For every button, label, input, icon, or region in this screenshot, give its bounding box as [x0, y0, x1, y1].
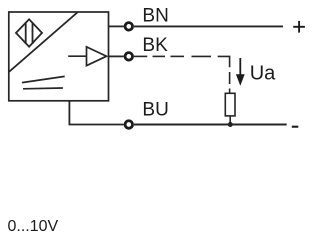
svg-text:BK: BK — [142, 35, 168, 56]
amplifier triangle U1 — [68, 47, 106, 66]
terminal BN — [125, 23, 133, 31]
arrow Ua (voltage arrow pointing down) — [236, 58, 245, 86]
wire BK solid stub — [134, 55, 147, 57]
dashed wire BK corner piece — [218, 56, 230, 67]
adjustment symbol (two lines) — [22, 76, 65, 82]
terminal BU — [125, 121, 133, 129]
terminal BK — [125, 53, 133, 61]
minus terminal — [292, 126, 299, 128]
junction dot on BU wire — [228, 122, 233, 127]
inductive sensor symbol (diamond) — [16, 19, 42, 46]
diagonal divider line inside sensor box — [9, 12, 77, 71]
sensor box outline — [9, 12, 109, 101]
wire from box bottom down — [68, 101, 70, 125]
wire BN to plus — [134, 25, 283, 27]
svg-text:Ua: Ua — [250, 63, 276, 85]
dashed wire BK vertical dashes — [229, 72, 231, 94]
wire BN from box to terminal — [109, 25, 124, 27]
svg-text:BN: BN — [142, 5, 168, 26]
wire resistor bottom to BU — [229, 116, 231, 125]
dashed wire BK horizontal dashes — [153, 55, 212, 57]
wire BU horizontal to terminal — [69, 124, 124, 126]
svg-text:BU: BU — [142, 99, 168, 120]
wire BK from box to terminal — [109, 55, 124, 57]
wire BU to minus — [134, 124, 287, 126]
svg-text:0...10V: 0...10V — [8, 218, 59, 235]
load resistor — [225, 93, 235, 116]
plus terminal — [293, 21, 305, 33]
